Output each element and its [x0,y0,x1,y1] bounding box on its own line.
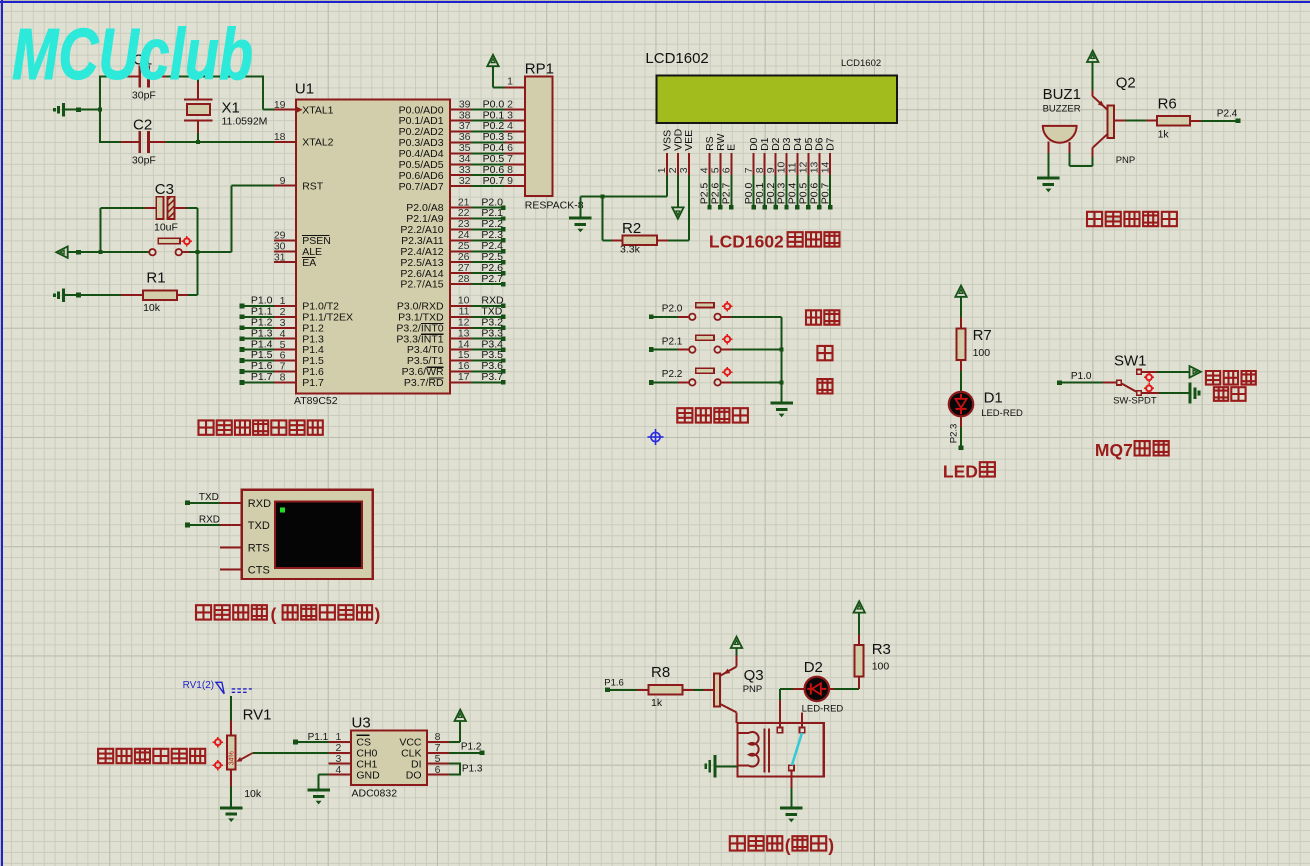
svg-text:P1.2: P1.2 [461,741,482,752]
svg-text:P2.7/A15: P2.7/A15 [400,279,443,291]
svg-text:P1.6: P1.6 [604,678,624,689]
svg-text:14: 14 [819,161,831,173]
svg-text:CTS: CTS [248,565,270,577]
svg-text:C2: C2 [133,117,152,134]
svg-text:P0.7: P0.7 [819,182,831,204]
svg-text:17: 17 [458,371,470,383]
svg-text:28: 28 [458,273,470,285]
svg-text:(: ( [271,604,277,624]
svg-text:D2: D2 [804,659,823,676]
svg-text:LED: LED [943,461,978,481]
svg-text:(: ( [785,835,791,855]
svg-text:R1: R1 [146,269,165,286]
svg-text:P3.7: P3.7 [481,371,503,383]
svg-text:RP1: RP1 [525,60,554,77]
svg-text:LED-RED: LED-RED [802,703,844,714]
svg-text:VEE: VEE [683,130,695,151]
svg-text:19: 19 [274,99,286,111]
svg-text:32: 32 [459,175,471,187]
svg-text:P3.7/RD: P3.7/RD [404,377,444,389]
svg-text:P1.7: P1.7 [302,377,324,389]
svg-text:R2: R2 [622,220,641,237]
svg-text:U3: U3 [352,714,371,731]
svg-text:3.3k: 3.3k [620,244,641,256]
svg-text:9: 9 [280,175,286,187]
svg-text:R6: R6 [1158,96,1177,113]
svg-text:SW-SPDT: SW-SPDT [1113,395,1157,406]
svg-text:RST: RST [302,180,324,192]
svg-text:XTAL1: XTAL1 [302,104,333,116]
svg-text:8: 8 [280,372,286,384]
svg-text:LCD1602: LCD1602 [841,58,881,69]
svg-text:D1: D1 [984,390,1003,407]
svg-text:RXD: RXD [248,498,271,510]
svg-text:DO: DO [406,769,422,781]
svg-text:RV1(2): RV1(2) [183,680,215,691]
svg-text:XTAL2: XTAL2 [302,137,333,149]
svg-text:100: 100 [872,661,890,673]
svg-text:P2.1: P2.1 [662,336,683,347]
svg-text:31: 31 [274,251,286,263]
svg-text:SW1: SW1 [1114,352,1147,369]
svg-text:): ) [828,835,834,855]
svg-text:10uF: 10uF [154,222,178,234]
svg-text:34%: 34% [229,751,236,765]
svg-text:10k: 10k [143,302,161,314]
svg-text:P1.7: P1.7 [251,371,273,383]
svg-text:18: 18 [274,131,286,143]
svg-text:LCD1602: LCD1602 [645,50,708,67]
svg-text:MCUclub: MCUclub [12,15,253,95]
svg-text:3: 3 [678,167,690,173]
svg-text:100: 100 [973,347,991,359]
svg-text:P0.7/AD7: P0.7/AD7 [399,181,444,193]
svg-text:AT89C52: AT89C52 [294,395,338,407]
svg-text:9: 9 [507,175,513,187]
svg-text:P2.3: P2.3 [948,424,959,444]
svg-text:R8: R8 [651,664,670,681]
svg-text:TXD: TXD [199,492,219,503]
svg-text:P0.7: P0.7 [483,175,505,187]
svg-text:LED-RED: LED-RED [981,408,1023,419]
svg-text:X1: X1 [222,100,240,117]
svg-text:P1.0: P1.0 [1071,371,1092,382]
svg-text:1k: 1k [651,697,663,709]
svg-text:10k: 10k [244,788,262,800]
svg-text:BUZ1: BUZ1 [1043,86,1081,103]
svg-text:P2.0: P2.0 [662,304,683,315]
svg-text:RESPACK-8: RESPACK-8 [525,200,584,212]
svg-text:6: 6 [721,167,733,173]
svg-text:1k: 1k [1158,129,1170,141]
svg-text:GND: GND [356,769,380,781]
svg-text:U1: U1 [295,81,314,98]
svg-text:11.0592M: 11.0592M [222,116,268,128]
svg-text:D7: D7 [825,137,837,151]
svg-text:BUZZER: BUZZER [1043,104,1081,115]
svg-text:): ) [375,604,381,624]
svg-text:R7: R7 [973,327,992,344]
svg-text:E: E [726,144,738,151]
svg-text:P2.7: P2.7 [721,182,733,204]
svg-text:MQ7: MQ7 [1095,440,1133,460]
svg-text:RV1: RV1 [243,706,272,723]
svg-text:P2.2: P2.2 [662,369,683,380]
svg-text:RTS: RTS [248,542,270,554]
svg-text:TXD: TXD [248,520,270,532]
svg-text:PNP: PNP [743,684,763,695]
svg-text:Q3: Q3 [744,667,764,684]
svg-text:P2.7: P2.7 [481,273,503,285]
svg-text:1: 1 [507,76,513,88]
svg-text:RXD: RXD [199,515,220,526]
svg-text:P1.1: P1.1 [308,732,329,743]
svg-text:30pF: 30pF [132,155,156,167]
svg-text:4: 4 [335,764,341,776]
svg-text:P2.4: P2.4 [1217,108,1238,119]
svg-text:PNP: PNP [1116,155,1136,166]
svg-text:6: 6 [435,764,441,776]
svg-text:ADC0832: ADC0832 [352,788,398,800]
svg-text:Q2: Q2 [1116,74,1136,91]
svg-text:EA: EA [302,257,316,269]
svg-text:C3: C3 [155,181,174,198]
svg-text:P1.3: P1.3 [462,764,483,775]
svg-text:LCD1602: LCD1602 [709,231,784,251]
svg-text:R3: R3 [872,641,891,658]
